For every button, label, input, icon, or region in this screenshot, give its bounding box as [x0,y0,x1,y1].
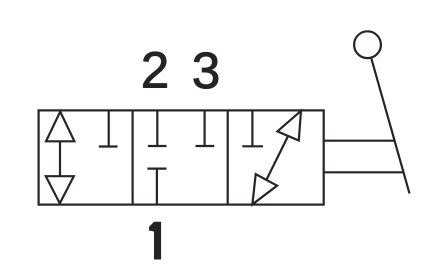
svg-text:2: 2 [141,42,169,99]
svg-text:3: 3 [192,42,220,99]
